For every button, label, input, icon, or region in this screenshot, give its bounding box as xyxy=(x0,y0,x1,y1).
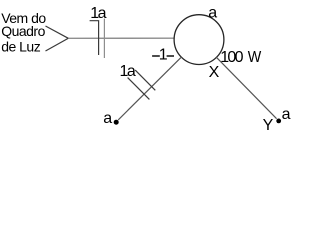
conductor tick on switch leg xyxy=(128,78,150,100)
svg-text:a: a xyxy=(282,106,291,123)
point dot a (Y end) xyxy=(276,119,281,124)
lamp outlet circle -1- xyxy=(174,15,224,65)
wire: feeder to lamp circle xyxy=(68,37,174,39)
wire X-Y: circle to point a (Y end) xyxy=(216,57,276,118)
svg-text:X: X xyxy=(209,64,220,81)
svg-text:1a: 1a xyxy=(120,63,136,80)
switch point dot a (left) xyxy=(114,120,119,125)
leader from label 1a xyxy=(90,21,99,55)
feeder arrow chevron xyxy=(46,26,69,51)
svg-text:a: a xyxy=(103,110,112,127)
svg-text:Y: Y xyxy=(263,117,274,133)
conductor tick on feeder wire xyxy=(103,19,105,58)
svg-text:W: W xyxy=(248,49,262,66)
svg-text:Quadro: Quadro xyxy=(1,23,45,39)
label -1- (point number) xyxy=(152,47,174,64)
wire: circle to switch point a xyxy=(118,57,181,120)
svg-text:a: a xyxy=(208,4,217,21)
svg-text:de Luz: de Luz xyxy=(1,39,41,55)
leader/tick from label 1a on switch leg xyxy=(135,70,155,90)
svg-text:1: 1 xyxy=(159,47,168,64)
label 100 W (lamp power) xyxy=(220,49,262,66)
label "Vem do Quadro de Luz" (feeder from light panel) xyxy=(1,10,46,55)
svg-text:100: 100 xyxy=(220,49,243,66)
